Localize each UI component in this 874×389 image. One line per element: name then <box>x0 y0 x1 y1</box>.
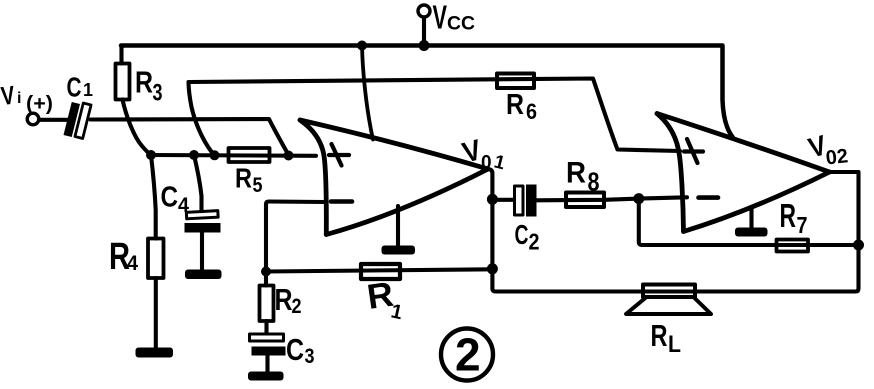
resistor R6 <box>497 74 534 89</box>
junction R7-V02 <box>853 240 864 251</box>
junction V01-C2 <box>487 194 498 205</box>
op-amp U2 - sign <box>699 195 719 200</box>
capacitor C1 <box>64 102 92 138</box>
wire node line <box>151 153 316 158</box>
svg-text:2: 2 <box>292 295 302 318</box>
wire C1 to + node <box>91 119 289 155</box>
wire C2 link <box>492 198 514 202</box>
svg-text:V: V <box>433 0 448 36</box>
svg-text:1: 1 <box>492 151 508 174</box>
resistor R2 <box>264 272 268 286</box>
svg-text:R: R <box>275 282 293 317</box>
svg-text:2: 2 <box>455 329 481 381</box>
wire R1 line <box>266 269 492 271</box>
junction dot rail-U1 <box>357 41 367 51</box>
wire U1 minus input <box>266 202 325 272</box>
junction R1 left <box>261 267 271 277</box>
svg-text:7: 7 <box>797 212 808 238</box>
resistor R1 <box>361 264 400 279</box>
svg-text:6: 6 <box>526 99 537 124</box>
svg-text:02: 02 <box>825 145 849 169</box>
svg-text:(+): (+) <box>26 93 53 115</box>
svg-text:4: 4 <box>178 194 189 217</box>
wire input to C1 <box>39 118 68 122</box>
capacitor C3 <box>250 334 284 341</box>
capacitor C4 <box>194 155 202 211</box>
svg-text:L: L <box>668 331 681 358</box>
svg-text:4: 4 <box>127 252 138 275</box>
svg-text:5: 5 <box>253 174 263 197</box>
svg-text:C: C <box>515 219 529 250</box>
resistor R3 <box>116 64 130 100</box>
wire R7 feedback <box>639 199 859 245</box>
ground under R4 <box>136 348 174 358</box>
svg-text:2: 2 <box>529 229 540 255</box>
terminal Vcc <box>418 5 430 17</box>
junction dot rail-Vcc <box>419 40 430 51</box>
svg-text:i: i <box>17 90 21 107</box>
op-amp U1 + sign <box>329 144 349 166</box>
svg-text:C: C <box>67 72 82 103</box>
svg-text:C: C <box>286 332 304 367</box>
ground under C3 <box>248 372 284 381</box>
svg-text:1: 1 <box>83 80 93 100</box>
svg-text:CC: CC <box>447 13 475 35</box>
svg-text:R: R <box>235 163 252 194</box>
junction input node <box>284 151 294 161</box>
junction R6 node <box>210 150 220 160</box>
wire C2 to R8 to U2 minus <box>537 197 688 200</box>
terminal Vi input <box>27 113 39 125</box>
svg-text:8: 8 <box>588 167 600 197</box>
resistor R4 <box>151 155 156 239</box>
ground under op-amp U1 <box>396 206 400 246</box>
junction C4 node <box>189 150 199 160</box>
svg-text:C: C <box>161 182 179 214</box>
wire V01 output node <box>488 169 859 292</box>
ground under C4 <box>185 270 222 280</box>
resistor R8 <box>566 193 604 208</box>
svg-text:3: 3 <box>305 345 315 368</box>
resistor R5 <box>229 148 270 162</box>
svg-text:0: 0 <box>481 153 492 174</box>
junction R1 right <box>487 263 498 274</box>
ground under op-amp U2 <box>749 207 753 228</box>
svg-text:R: R <box>135 65 153 100</box>
wire R6 feedback line <box>189 79 681 156</box>
svg-text:V: V <box>0 80 17 111</box>
wire R3 to node A <box>123 100 152 156</box>
speaker RL <box>643 285 695 298</box>
op-amp U2 + sign <box>684 139 703 163</box>
resistor R7 <box>777 240 809 252</box>
wire Vcc descent to op-amp U1 <box>362 46 373 140</box>
op-amp U1 - sign <box>331 199 352 204</box>
wire Vcc top rail <box>121 46 733 138</box>
op-amp U1 <box>300 120 488 235</box>
figure number circle 2 <box>441 329 493 381</box>
svg-text:R: R <box>566 157 586 190</box>
capacitor C2 <box>515 186 524 215</box>
svg-text:R: R <box>780 197 797 234</box>
op-amp U2 <box>657 114 830 232</box>
svg-text:3: 3 <box>153 80 163 107</box>
svg-text:R: R <box>506 89 524 121</box>
junction node A <box>146 150 156 160</box>
junction R8 node <box>633 193 644 204</box>
svg-text:R: R <box>651 318 668 353</box>
